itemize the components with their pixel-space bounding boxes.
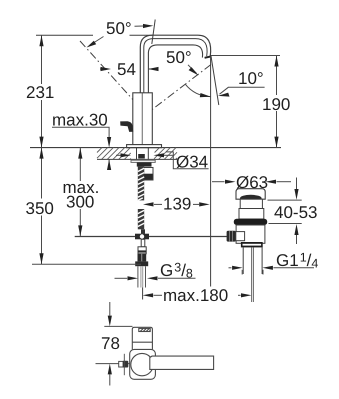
svg-text:50°: 50° (166, 48, 192, 67)
drain O-ring (234, 219, 267, 225)
faucet axis extension below hoses (142, 288, 144, 300)
pop-up rod horizontal (75, 236, 227, 238)
dim 190 ref line (211, 55, 280, 57)
dim 190 line (276, 56, 278, 96)
spout mouth face (205, 56, 212, 58)
node: left swivel diagonal dash-dot (80, 41, 144, 112)
threaded rod segment A (138, 167, 144, 201)
svg-text:300: 300 (66, 193, 94, 212)
G1 1/4 arrows (232, 266, 243, 270)
50 mid leader (188, 65, 197, 74)
supply hoses (138, 266, 146, 287)
G3/8 nut (135, 261, 148, 266)
cartridge circle (131, 353, 153, 375)
231 arrows (39, 35, 43, 46)
dim 231 line (41, 35, 43, 84)
lever bar (150, 356, 214, 369)
max300 arrows (78, 148, 82, 159)
aerator slot (139, 328, 150, 331)
350 arrows (39, 148, 43, 159)
max30 arrows (107, 137, 111, 148)
bottom view: 78 ext line (104, 325, 132, 327)
drain body (236, 225, 265, 243)
dim max180 line (154, 294, 163, 296)
svg-text:G11/4: G11/4 (276, 251, 318, 271)
base rounded square (130, 349, 156, 379)
dim max300 line (79, 148, 81, 181)
deck bottom line (97, 158, 177, 160)
svg-text:G3/8: G3/8 (160, 261, 193, 281)
dim 139 (154, 203, 162, 205)
dim Ø63 (212, 181, 225, 183)
vertical extension line from spout mouth (210, 56, 212, 287)
deck top line (30, 147, 281, 149)
mounting nut (137, 162, 152, 166)
outlet nub (119, 361, 124, 367)
139 arrows (143, 202, 154, 206)
50 mid leader arrowhead (189, 67, 199, 75)
G1 1/4 arrow lines (229, 267, 232, 269)
knurled knob (227, 231, 236, 242)
G1 1/4 thread walls (242, 247, 244, 274)
190 arrows (274, 56, 278, 67)
svg-text:231: 231 (26, 83, 54, 102)
350 bottom ref line (32, 263, 141, 265)
drain upper body (239, 209, 264, 220)
svg-text:350: 350 (26, 199, 54, 218)
svg-text:50°: 50° (106, 19, 132, 38)
connector stem (141, 239, 145, 247)
10 deg arrowhead (218, 93, 230, 97)
dim 54 (100, 68, 102, 70)
50 left arc segments (91, 37, 104, 45)
max180 arrows (143, 293, 154, 297)
divider line (132, 341, 152, 343)
node: right swivel diagonal dash-dot (145, 65, 211, 116)
50 mid arc (185, 84, 210, 97)
svg-text:190: 190 (262, 95, 290, 114)
spout inner wall line (144, 39, 207, 93)
svg-text:max.180: max.180 (163, 286, 228, 305)
78 arrows (108, 316, 112, 327)
body top section (132, 327, 152, 349)
wire: top reference line for 231 (36, 34, 93, 36)
svg-text:Ø63: Ø63 (236, 173, 268, 192)
40-53 arrows (294, 189, 298, 200)
divider bar (241, 242, 263, 247)
dim Ø34 (116, 154, 121, 156)
handle lever (120, 121, 133, 132)
drain flange (236, 189, 265, 200)
svg-text:40-53: 40-53 (274, 203, 317, 222)
rod lower stub to node (141, 229, 145, 234)
outlet axis tick (96, 363, 132, 365)
50 left arc arrowheads (87, 41, 97, 48)
54 arrows (101, 67, 112, 71)
10 degree tilted line at spout mouth (211, 56, 219, 105)
threaded rod segment B (138, 209, 144, 229)
G3/8 arrows (128, 276, 139, 280)
deck hatched band (97, 148, 177, 160)
drain neck (240, 199, 262, 208)
drain tailpipe (251, 247, 253, 302)
base plate (127, 145, 162, 148)
10 deg leader (220, 87, 265, 94)
78 dim line top (109, 302, 111, 316)
crosshair vertical (123, 354, 125, 375)
shank through deck (136, 148, 138, 161)
svg-text:78: 78 (101, 334, 120, 353)
78 dim line bottom (109, 374, 111, 385)
G1 1/4 ext stubs (241, 270, 243, 275)
svg-text:54: 54 (117, 60, 136, 79)
svg-text:139: 139 (163, 195, 191, 214)
spout outline (140, 35, 210, 92)
50 mid arc arrowhead (200, 93, 211, 97)
washer below deck (131, 160, 155, 162)
dim 40-53 line (296, 178, 298, 191)
Ø34 label box (166, 152, 209, 169)
rod cross node (135, 234, 149, 240)
spout inner contour (148, 45, 202, 93)
svg-text:10°: 10° (238, 69, 264, 88)
knob cylinder (236, 232, 245, 241)
rod guide bracket (144, 168, 153, 181)
Ø63 arrows (225, 180, 236, 184)
node: swivel line tilted (top of riser) (152, 20, 155, 45)
faucet body (133, 93, 153, 145)
Ø34 arrows (121, 153, 132, 157)
svg-text:Ø34: Ø34 (176, 153, 208, 172)
dim 350 line (41, 148, 43, 199)
svg-text:max.30: max.30 (52, 111, 108, 130)
G3/8 connector body (138, 247, 146, 254)
max.30 leader (52, 127, 109, 137)
G3/8 arrows lines (115, 277, 128, 279)
40-53 ref lines (268, 199, 302, 201)
